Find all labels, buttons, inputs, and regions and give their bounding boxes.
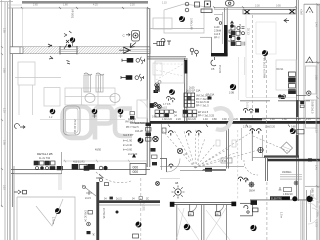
east wing light interior lines [246,14,296,98]
kitchen drain symbol 3 [118,108,124,118]
wall boxes on SW wall [57,161,95,170]
svg-text:40/50: 40/50 [95,149,102,152]
detalj leader vertical line [61,152,63,174]
dark glyph below cross circle [154,90,159,93]
svg-text:0.80: 0.80 [212,118,217,121]
small box above panel bar [284,188,292,192]
svg-text:DETALJ 2B: DETALJ 2B [37,152,52,156]
window pier faint vertical [22,8,24,47]
hall lower wall line [180,169,202,171]
hall text rows [161,103,171,110]
svg-text:2A: 2A [185,153,188,156]
fan symbol [172,182,185,199]
stove module [84,75,103,92]
thick bath wall [264,155,299,157]
svg-text:3.00x1.40: 3.00x1.40 [190,18,194,30]
top dimension ticks [21,6,297,9]
band end arrow tail [130,43,136,48]
svg-text:3.65: 3.65 [2,68,5,73]
distribution glyph matrix right of wall [230,21,245,46]
extra kitchen rows [125,121,138,157]
east vent dark circle [262,50,268,60]
south-east room corner walls [240,203,253,216]
balcony floor drain [179,16,185,22]
radiator hall [153,41,164,45]
C5 hook symbol below thick wall [211,57,216,71]
band text row fill-in [152,116,311,121]
dashed door arc SE [244,160,258,175]
svg-text:PP-Y: PP-Y [214,37,220,40]
svg-text:C4B 3C 04: C4B 3C 04 [84,210,87,222]
east window lintel band [243,10,296,14]
hall fixtures left cluster [150,87,175,109]
duct diagonal corridor [82,185,96,196]
bedroom SW outline [17,197,75,240]
svg-text:3Y=0.19 13.7: 3Y=0.19 13.7 [73,119,77,135]
svg-text:3.85: 3.85 [314,75,317,80]
svg-text:0.95: 0.95 [276,5,281,8]
svg-text:2x5.7kW: 2x5.7kW [135,122,145,125]
svg-text:0.90: 0.90 [222,118,227,121]
watermark letter 4 partial [214,108,231,130]
room label box hall east [221,158,232,163]
svg-text:1.40: 1.40 [203,118,208,121]
svg-text:0.80: 0.80 [291,126,296,129]
small dark dashes below window gap [67,61,71,65]
right lower verticals [306,190,308,240]
wall cap west [170,202,175,207]
watermark letter O [63,107,133,140]
top thin line [8,7,148,9]
svg-text:2.85: 2.85 [2,28,5,33]
top dimension texts [33,2,281,8]
south rooms dashed diagonals [177,208,230,240]
svg-text:RO-S1: RO-S1 [276,68,284,71]
svg-text:2.10: 2.10 [314,128,317,133]
svg-text:2.20: 2.20 [176,118,181,121]
junction circle on line [292,196,297,201]
door symbol left lower [14,190,27,194]
upper east wall piece [240,118,262,120]
svg-text:1.b0 2.20: 1.b0 2.20 [186,118,197,121]
faint counter line [40,118,125,120]
south rooms wall [172,202,236,204]
bottom right wall line with panel [250,199,310,201]
small dot corridor room [116,211,119,214]
svg-text:2x1.5: 2x1.5 [85,197,92,200]
thick wall horizontal leg [211,53,228,56]
stairs bottom right [280,175,302,180]
right dim ticks [316,4,319,188]
thick interior wall center-right [224,25,228,56]
small dark mark [281,96,285,99]
ELEKTRO label box [270,196,290,200]
south room divider walls [176,204,178,240]
svg-text:EP 2x1.5: EP 2x1.5 [198,111,209,114]
bath room walls east [242,128,266,161]
svg-text:2.95: 2.95 [2,140,5,145]
detalj glyph row [34,161,55,170]
wall oven symbol [123,31,140,42]
svg-text:1.45: 1.45 [314,165,317,170]
svg-text:1.5 m: 1.5 m [279,212,282,218]
top-left faint line [0,1,13,3]
wall stub above [224,8,227,25]
dashed line bottom right [266,182,268,240]
east top double wall line [214,7,296,9]
svg-text:16A 2P: 16A 2P [135,130,143,133]
svg-text:2x1.5 40: 2x1.5 40 [128,153,138,156]
svg-text:05/04: 05/04 [249,191,255,193]
window band arrow end [124,47,131,53]
dark lamp circle south room1 [184,224,190,231]
svg-text:5C: 5C [174,111,177,114]
svg-text:1P 13A: 1P 13A [206,94,214,97]
corridor thick wall vertical [96,182,99,240]
svg-text:k=+0.40: k=+0.40 [123,144,133,147]
fixture pair right of hall top [161,39,171,46]
east closet boxes right edge [306,66,317,128]
east wall dark segment [296,100,299,117]
hall wall horizontal [147,57,186,59]
svg-text:1.15: 1.15 [162,2,167,5]
hall vent dark circle [169,89,175,95]
main lower annotation band wall [150,121,320,124]
cabinet right of wall [153,63,162,75]
sink bowls [85,94,120,103]
corridor thick wall horizontal [99,200,160,203]
wiring dashed fan [163,128,258,168]
dimension ticks on band [48,44,53,59]
X-circle NE of SE corner [294,181,298,185]
left edge dimension texts [2,28,5,190]
dark circle hall bottom [136,221,142,227]
south-west corridor wall [11,170,150,174]
socket box 000 [130,154,146,175]
hall west wall line [161,124,163,170]
hall east wall vertical [226,124,228,169]
svg-text:4.25: 4.25 [93,4,98,7]
hall junction dark box [205,168,212,172]
east room divider [305,61,320,63]
small room outline above bedroom [14,174,61,190]
NW balcony dashed floor [156,64,183,80]
DETALJ 2B cluster [37,152,52,160]
top facade band [22,1,148,4]
bottom-right fan arcs [308,196,320,224]
east wing long wall [296,0,298,201]
svg-text:4.90: 4.90 [222,160,227,163]
small circle east wall [307,91,311,95]
cross circle mid [153,136,158,141]
left boundary wall lines [2,0,15,240]
wall cap east [231,202,236,207]
svg-text:V1BE: V1BE [142,203,146,211]
bath dashed wiring diagonal [253,136,290,152]
band tick marks [168,125,290,128]
wall hook symbol left [15,124,25,129]
NW balcony outline [150,4,204,33]
dashed service line east [252,15,254,118]
svg-text:PP-Y 3x1.5 25: PP-Y 3x1.5 25 [198,114,215,117]
kitchen counter grid [65,88,115,105]
svg-text:1.7b m: 1.7b m [52,217,55,224]
corner glyph cluster [96,178,109,186]
window glazing lines in gap [60,48,77,50]
radiator row 1 [122,57,145,64]
SE corner dark block [251,200,258,205]
switch symbols at window gap [64,40,71,49]
extra schedule rows [189,87,214,100]
dark fixture circle east room [290,128,296,134]
shower rotated square [281,142,293,154]
svg-text:2.20: 2.20 [130,4,135,7]
svg-text:k=+1.90: k=+1.90 [123,140,133,143]
box below dark circle [133,234,139,238]
closet thin wall [211,37,213,53]
kitchen dark box column [146,123,152,142]
svg-text:AB: AB [175,182,179,185]
door swing south room 2 [215,204,223,216]
svg-text:2.75: 2.75 [314,222,317,227]
svg-text:+2x0: +2x0 [300,9,304,15]
circle top of corridor [156,182,160,186]
svg-text:1.b0 2.20: 1.b0 2.20 [162,118,173,121]
dimension line above SW wall [63,160,147,163]
watermark letter C [115,109,132,137]
right top wall line [304,3,320,5]
east mid horizontal wall [240,100,270,102]
dashed curve corridor [96,172,131,183]
small dark pair east wall [300,101,304,104]
svg-text:1x1.5: 1x1.5 [246,102,249,109]
riser connect line [296,95,307,97]
corridor wall [303,4,305,240]
kitchen cluster boxes [130,112,134,115]
bedroom lamp circle [55,208,61,214]
svg-text:2x20 1P 13A: 2x20 1P 13A [186,90,201,93]
svg-text:2.5 1.30: 2.5 1.30 [243,126,252,129]
big junction dot right [306,196,312,202]
door swing south room 1 [188,204,196,216]
south room divider 3 [226,205,228,240]
extra dark boxes right of kitchen col [151,148,156,152]
svg-text:3.0B: 3.0B [229,92,234,95]
living room furniture [15,62,61,115]
svg-text:PP-Y 3x1.5: PP-Y 3x1.5 [196,104,209,107]
svg-text:2.05: 2.05 [243,118,248,121]
side table [44,88,60,107]
schedule text rows [174,90,215,118]
door hinge mark on east wall [308,158,312,161]
svg-text:ZV 3x1.5 +0.5 kW: ZV 3x1.5 +0.5 kW [263,58,266,79]
electrical panel schedule grid center [184,93,195,107]
wall lamp pair bathroom [190,48,198,56]
bathroom vertical wall [185,58,187,122]
lintel X mark east [290,10,295,14]
dashed line bottom left of center [140,178,142,240]
faint east verticals [239,57,245,100]
corridor wall top labels [104,198,149,200]
band annotation text row [162,118,301,121]
svg-text:k=+0.60: k=+0.60 [123,149,133,152]
svg-text:000: 000 [133,165,139,169]
svg-text:2.40: 2.40 [314,22,317,27]
SE corner fixtures [244,205,258,213]
door mark right top [306,7,313,14]
east room divider 2 [305,185,320,187]
svg-text:2.65: 2.65 [33,4,38,7]
hall faint line bottom [160,178,180,180]
kitchen junction dark circle [138,137,144,143]
kitchen annotation rows [123,118,145,152]
watermark letter P [95,107,112,140]
svg-text:ELEKTRO: ELEKTRO [271,197,282,200]
svg-text:VP 50/1: VP 50/1 [71,9,75,19]
svg-text:C5: C5 [211,67,215,71]
right edge dimension texts [314,22,317,227]
svg-text:3C: 3C [146,198,149,200]
svg-text:5x1.5: 5x1.5 [161,107,168,110]
annotation cluster top right (distribution box) [214,12,235,44]
svg-text:2x1.5: 2x1.5 [116,198,122,200]
central vertical wall [147,8,150,167]
east socket group upper [244,109,260,114]
svg-text:24 TW 05: 24 TW 05 [102,208,105,219]
sockets left of SE room [239,177,248,182]
left dim ticks [1,46,3,207]
svg-text:25 1.3: 25 1.3 [247,28,250,35]
faucet squiggles [84,73,104,75]
svg-text:1.7 0.5: 1.7 0.5 [163,103,171,106]
schedule boxed label rows [155,110,197,117]
ceiling lamp cross circle bath east [258,147,263,152]
corridor left annotation column [84,197,95,236]
ceiling lamp cross circle hall [177,148,182,153]
vent stack symbol [64,31,75,46]
rounded service box top right [226,1,235,7]
svg-text:1L 2L T34: 1L 2L T34 [39,157,51,160]
small cross circle [155,83,159,87]
corridor lower thin line [99,204,160,206]
dashed mid vertical [237,130,239,200]
svg-text:P=2.05: P=2.05 [218,65,221,74]
svg-text:PP-Y 5x2.5: PP-Y 5x2.5 [126,126,139,129]
east riser stack boxes [278,72,295,98]
bathtub [64,106,81,135]
kitchen drain symbol 2 [92,108,98,118]
east lower thick wall [267,159,320,162]
svg-text:2x20: 2x20 [189,87,195,90]
svg-text:1.80: 1.80 [63,4,68,7]
dashed service line east 2 [266,60,268,155]
balcony glyph box [156,87,160,92]
wall bracket left of lintel [284,19,289,23]
washing machine circle [229,84,236,95]
north window wall band [10,46,150,54]
faint fixtures south hall rooms [216,140,220,146]
dashed vertical hall [198,131,200,165]
svg-text:3.16B 2x1.5: 3.16B 2x1.5 [311,100,314,114]
glyph row left of corridor [84,166,107,170]
door mark right mid [306,57,313,64]
svg-text:3.10: 3.10 [2,185,5,190]
svg-text:160/REG: 160/REG [282,172,292,174]
socket on hall wall [169,164,173,168]
socket pair row under band 2 east [250,129,304,134]
svg-text:1.60/2.20: 1.60/2.20 [283,194,293,196]
dark circle SE room [250,225,256,232]
east upper wall thin line [262,117,320,119]
kitchen drain symbol 1 [49,108,55,118]
svg-text:000: 000 [133,170,139,174]
hall door wall piece [160,158,167,172]
right edge wall [317,4,319,240]
east band lower text row [243,126,296,129]
hall door swing arc [167,159,181,173]
top small fixtures row [185,1,212,13]
svg-text:3.30: 3.30 [255,5,260,8]
svg-text:3x2.5 P/T: 3x2.5 P/T [123,134,134,137]
svg-text:VM 3x1.5: VM 3x1.5 [125,121,136,124]
lintel X mark west [245,10,250,14]
wardrobe right of bath [137,100,147,118]
radiator row 2 [121,74,144,81]
socket pair row under band 1 [162,128,201,136]
svg-text:1.20: 1.20 [2,108,5,113]
bathroom wall dark segment [184,60,187,74]
asterisk fixture SE [246,180,255,193]
west balcony room outline [155,61,184,83]
hall east wall lower line [202,169,226,171]
svg-text:P=1.30: P=1.30 [238,24,242,33]
svg-text:0.90: 0.90 [152,116,157,119]
